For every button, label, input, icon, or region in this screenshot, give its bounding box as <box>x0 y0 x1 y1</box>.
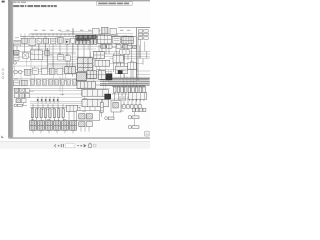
relay R2 fan relay <box>113 37 121 44</box>
relay box R6 <box>113 55 123 62</box>
wire mesh vertical drops <box>15 36 137 106</box>
relay R1 starter relay <box>29 38 36 45</box>
wire pt leads <box>95 34 97 38</box>
switch SW3 starter button <box>50 38 55 43</box>
wire heavy vertical x47 <box>46 48 48 68</box>
switch cluster SC1 box d <box>14 94 19 98</box>
dark cell bar below CN1 <box>76 40 90 41</box>
bullet connector BC4 <box>105 117 108 120</box>
wire bottom verticals <box>33 104 63 110</box>
wire left edge stubs <box>13 43 14 45</box>
wire main top bus <box>20 35 136 37</box>
wire fuse lead <box>101 99 103 102</box>
fuse F7 <box>61 79 65 85</box>
multi-pin connector MC4 <box>54 121 61 131</box>
ignition coil T2 left <box>14 70 18 74</box>
wire battery stubs down <box>81 127 89 132</box>
connector row CN7 <box>82 90 108 97</box>
connector comb CN6 right <box>112 85 146 87</box>
instrument cluster U1 <box>30 50 42 60</box>
sensor B1 water temp <box>65 67 76 74</box>
wire right edge drop <box>137 36 139 80</box>
pilot lamp L1 <box>13 61 16 64</box>
connector CN3 <box>122 37 133 44</box>
main fuse holder F10 <box>100 102 103 112</box>
switch SW1 ignition switch <box>14 40 21 46</box>
connector pin P2 <box>36 109 38 118</box>
switch cluster SC1 box b <box>20 88 25 92</box>
relay R5 dark <box>106 74 112 80</box>
resistor module RM1 <box>14 80 20 86</box>
fuse F2 <box>31 79 35 85</box>
wire block stubs down <box>33 130 73 133</box>
flasher relay R4 <box>65 56 70 61</box>
wire mesh horizontal runs <box>13 32 150 106</box>
connector comb CN9 right lower <box>119 96 121 108</box>
switch SW4 dimmer upper <box>13 50 19 54</box>
terminal box TB2 bottom right <box>128 93 146 100</box>
connector block CN5 grid <box>98 71 105 80</box>
wire u5 internal leads <box>139 45 141 58</box>
wire fuse lead down <box>101 112 103 116</box>
pre-top box PT1 <box>93 28 99 34</box>
fuse F9 <box>73 79 77 85</box>
switch SW4 dimmer lower <box>13 56 19 61</box>
connector pin P5 <box>49 109 51 118</box>
wire vertical drops from top row <box>17 43 132 76</box>
switch cluster SC1 box a <box>15 88 19 92</box>
relay row RR1 <box>101 44 106 48</box>
connector J5 <box>45 50 50 55</box>
wire top label leads <box>21 33 73 36</box>
relay row RR4 <box>122 45 127 49</box>
label smudges <box>14 34 140 120</box>
switch cluster SC1 box f <box>26 94 30 98</box>
aux boxes near U5 <box>127 45 132 48</box>
connector block CN1 main harness <box>76 35 97 38</box>
wire pins to blocks <box>32 112 74 121</box>
wire is1 lead down <box>113 112 115 117</box>
fuse F6 <box>55 79 59 85</box>
connector block CN2 <box>97 35 111 43</box>
wire top bus 2 <box>30 33 118 35</box>
fuse F5 <box>49 79 53 85</box>
multi-pin connector MC3 <box>46 121 53 131</box>
wire right edge drop 2 <box>140 36 142 58</box>
spark unit U4 <box>128 63 137 69</box>
ground block G1 dark <box>105 94 111 99</box>
wire bottom feed bus <box>30 107 80 109</box>
dark module G2 <box>118 70 122 73</box>
junction box JB2 center <box>78 58 93 71</box>
switch cluster SC1 box h <box>21 99 26 103</box>
fuse box FB1 <box>77 82 96 89</box>
connector pin P8 <box>62 109 64 118</box>
wire riser tick <box>72 28 74 34</box>
switch cluster SC1 box c <box>25 89 29 93</box>
connector block CN4 <box>87 71 96 78</box>
wire top right feed <box>118 27 137 29</box>
comb row second CN10 <box>132 108 135 112</box>
relay R3 headlight relay <box>22 52 28 58</box>
pre-top box PT3 <box>110 28 116 34</box>
wire verticals row2 <box>113 51 146 78</box>
connector J9 <box>21 80 27 85</box>
junction box JB1 upper <box>76 39 79 44</box>
connector rows inside U5 <box>138 30 143 33</box>
fuse F3 <box>37 79 41 85</box>
connector pin P1 <box>31 109 33 118</box>
connector row CN8 <box>82 99 108 106</box>
connector pin P3 <box>40 109 42 118</box>
wire cn8 drops to battery box <box>80 107 95 111</box>
connector J7 <box>42 68 48 74</box>
relay row RR3 <box>116 45 121 49</box>
connector J1 <box>22 38 28 43</box>
connector J6 <box>24 69 30 75</box>
battery cell row 2 <box>86 114 92 119</box>
fuse F8 <box>67 79 71 85</box>
junction box JB3 lower <box>76 73 86 81</box>
bullet connector BC3 <box>14 104 17 107</box>
hatch cell inside IS1 <box>113 102 118 108</box>
starter relay block SR2 <box>86 122 92 127</box>
multi-pin connector MC5 <box>62 121 69 131</box>
switch cluster SC1 box e <box>20 93 25 97</box>
CDI unit U2 <box>93 52 104 59</box>
multi-pin connector MC6 <box>70 121 77 131</box>
sensor module B2 <box>115 66 127 74</box>
connector J8 <box>49 68 55 74</box>
switch SW6 clutch <box>32 68 38 74</box>
multi-pin connector MC2 <box>38 121 45 131</box>
ignition switch box IS1 <box>111 100 121 112</box>
multi-pin connector MC1 <box>30 121 37 131</box>
battery cell row 1 <box>79 114 85 119</box>
fuse F1 main fuse <box>71 38 75 43</box>
wire comb leads down <box>115 93 144 101</box>
switch cluster SC1 box g <box>16 99 20 103</box>
diode D1 <box>65 40 70 44</box>
wire cluster leads <box>23 103 25 106</box>
connector J3 <box>57 38 63 44</box>
ignition coil T3 right <box>18 70 22 74</box>
wire dark bus band right <box>100 78 150 85</box>
switch SW5 turn signal <box>57 55 63 60</box>
wire bc leads <box>134 112 136 116</box>
switch SW2 engine stop <box>37 39 42 44</box>
label smudge row above bus <box>34 30 130 31</box>
connector J2 <box>43 38 49 43</box>
connector pin P4 <box>44 109 46 118</box>
fuse F4 <box>43 79 47 85</box>
ignition coil T1 <box>120 50 130 55</box>
switch SW7 brake <box>57 68 63 74</box>
pre-top box PT2 <box>101 27 108 34</box>
ECU box U5 right edge <box>137 27 151 29</box>
relay row RR2 <box>107 44 112 48</box>
bullet connector BC1 <box>128 116 131 119</box>
connector pin P6 <box>53 109 55 118</box>
battery box outline BT1 <box>76 111 100 121</box>
starter relay block SR1 <box>79 122 85 127</box>
terminal strip TS1 <box>66 105 77 111</box>
regulator U3 <box>95 60 110 66</box>
bullet connector BC2 <box>128 125 131 128</box>
connector pin P7 <box>58 109 60 118</box>
diode pack D2 <box>37 97 39 104</box>
wire left vertical page edge <box>13 44 15 56</box>
